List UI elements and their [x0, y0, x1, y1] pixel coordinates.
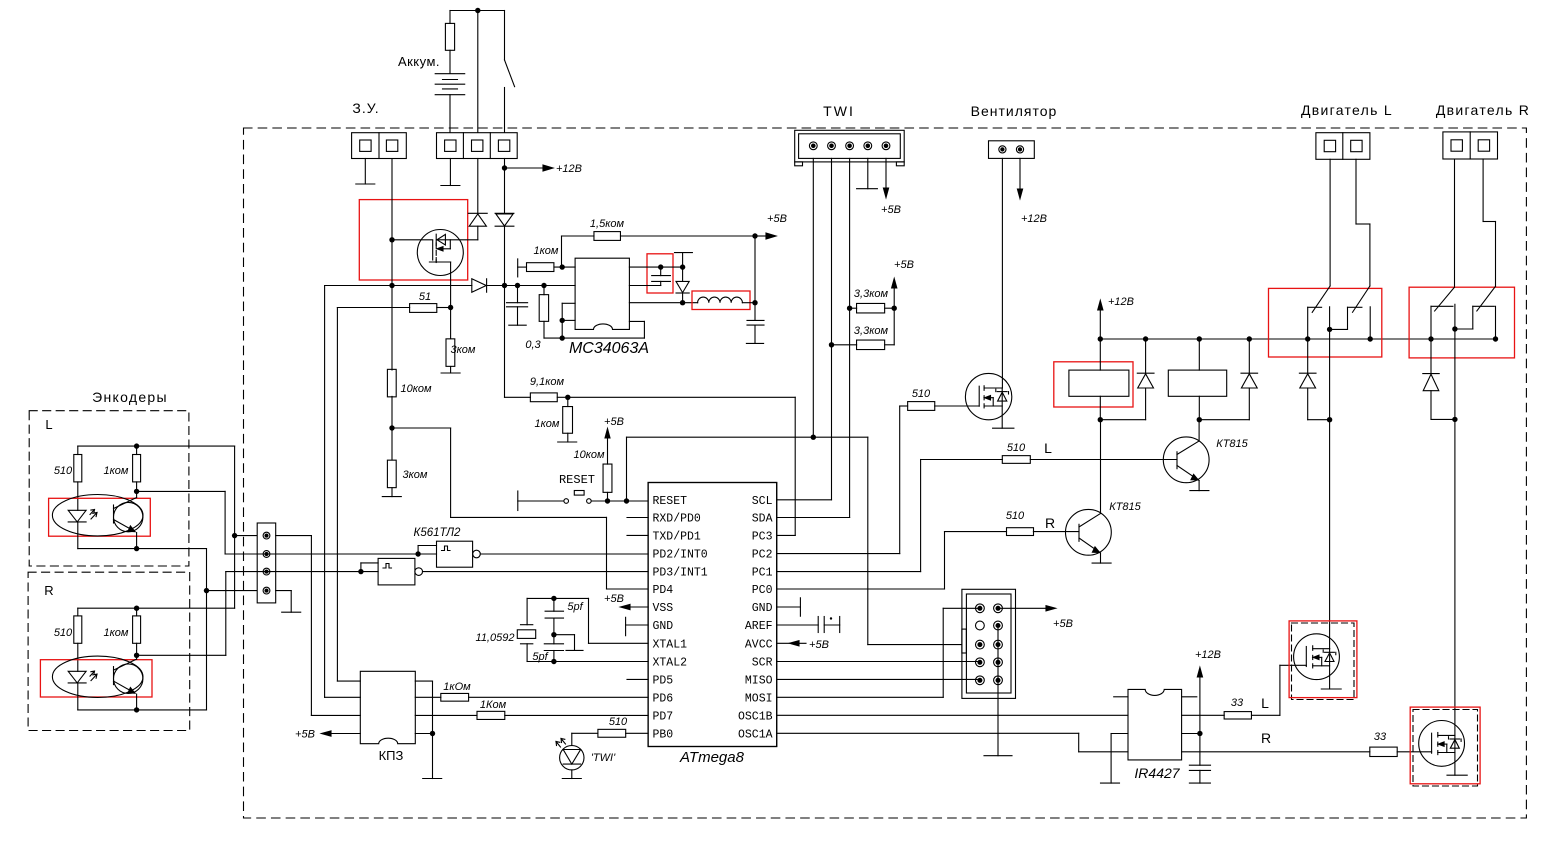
node +5V inductor out [752, 300, 757, 305]
VT5 black dashed box [1292, 623, 1355, 700]
relay contacts R red box [1409, 287, 1514, 358]
body diode VT2 [997, 391, 1007, 393]
node 1k feedback [560, 264, 565, 269]
svg-text:L: L [1044, 440, 1052, 456]
ground VT5 [1321, 688, 1341, 690]
wire gate1 inputs [418, 553, 436, 555]
svg-text:TXD/PD1: TXD/PD1 [653, 530, 701, 543]
capacitor U2 bypass [1189, 764, 1210, 766]
wire rail down to 9,1ком [504, 286, 506, 398]
diode VD7 motor L [1307, 339, 1309, 373]
wire X1 pin1 to ground [364, 159, 366, 185]
node reset pullup [605, 498, 610, 503]
svg-text:1ком: 1ком [534, 245, 559, 257]
svg-text:КТ815: КТ815 [1109, 501, 1141, 513]
wire LED to gnd [571, 770, 573, 779]
wire PB0 to 510 [626, 732, 648, 734]
svg-text:0,3: 0,3 [525, 339, 541, 351]
net +12V arrow [505, 167, 544, 169]
node contact R common [1452, 326, 1457, 331]
wire TWI pin4 gnd [867, 158, 869, 188]
wire fan drain [1001, 158, 1003, 388]
wire switch pin to inductor [629, 302, 697, 304]
relay K1 coil [1099, 339, 1101, 370]
svg-text:ATmega8: ATmega8 [679, 749, 745, 766]
svg-text:PC2: PC2 [752, 549, 773, 562]
svg-text:510: 510 [912, 388, 931, 400]
terminal VD4 top bar [675, 252, 693, 254]
wire motor R pin2 [1482, 159, 1484, 222]
terminal GND left [625, 617, 627, 635]
transistor VT6 N-MOSFET R [1419, 721, 1465, 767]
svg-text:Двигатель R: Двигатель R [1436, 102, 1530, 118]
svg-text:11,0592: 11,0592 [476, 632, 515, 644]
resistor 33 L [1224, 712, 1251, 719]
node +12V tap [502, 165, 507, 170]
pin stub RXD [627, 517, 648, 519]
svg-text:К561ТЛ2: К561ТЛ2 [414, 527, 461, 539]
svg-text:R: R [44, 583, 53, 598]
transistor VT4 KT815 L [1163, 437, 1209, 483]
net +5V arrow AVCC [777, 642, 806, 644]
connector X6 motor R [1443, 132, 1498, 159]
crystal ZQ1 11,0592 [526, 598, 528, 624]
VT1 drain plate [435, 260, 437, 262]
svg-text:З.У.: З.У. [352, 100, 379, 116]
wire encoder L bottom [78, 548, 207, 550]
node U2 +12V [1197, 731, 1202, 736]
wire R common pole [1454, 304, 1456, 735]
fuse F1 [449, 11, 451, 24]
svg-text:1,5ком: 1,5ком [590, 218, 625, 230]
transistor VT3 KT815 R [1066, 509, 1112, 555]
capacitor input filter [507, 302, 528, 304]
gate DD1.1 Schmitt [437, 541, 473, 567]
VT6 red box [1410, 707, 1480, 784]
contact L throw1 [1308, 306, 1322, 308]
svg-text:510: 510 [609, 716, 628, 728]
ground X2 [441, 185, 460, 187]
node gate2 input [358, 569, 363, 574]
svg-text:10ком: 10ком [400, 383, 432, 395]
net +5V arrow КПЗ [329, 733, 360, 735]
svg-text:+12В: +12В [1195, 649, 1221, 661]
capacitor timing red box [647, 254, 673, 293]
ground crystal caps [566, 649, 583, 651]
svg-text:RESET: RESET [653, 495, 688, 508]
wire motor L pin1 [1329, 159, 1331, 286]
diode VD4 catch [682, 267, 684, 281]
contact R throw1 post [1430, 306, 1432, 339]
ground U2 cap [1189, 782, 1210, 784]
wire КПЗ pin3 out [415, 714, 477, 716]
contact R arm1 [1435, 287, 1455, 311]
red highlight box P-MOSFET [359, 200, 467, 280]
node top rail junction [475, 8, 480, 13]
contact L arm1 [1312, 286, 1330, 312]
net fan +12V arrow [1019, 158, 1021, 189]
node 51 junction [448, 305, 453, 310]
resistor 10ком divider [387, 369, 396, 397]
svg-text:RESET: RESET [559, 473, 595, 487]
connector X7 ISP [962, 589, 1016, 698]
connector X4 fan [989, 141, 1035, 159]
resistor 510 fan [908, 402, 935, 411]
wire divider tap to PD4 [392, 427, 451, 429]
node VD8 common [1452, 417, 1457, 422]
wire VT2 source gnd [1001, 388, 1003, 428]
resistor 3ком lower [391, 428, 393, 460]
battery GB1 [435, 73, 465, 75]
terminal GND right [777, 606, 801, 608]
svg-text:+12В: +12В [1021, 213, 1047, 225]
contact L arm2 [1353, 286, 1370, 312]
resistor 1ком to gnd [567, 397, 569, 406]
resistor 510 encL [77, 446, 79, 454]
capacitor output filter [747, 319, 764, 321]
node sense bottom [560, 335, 565, 340]
svg-text:3,3ком: 3,3ком [854, 288, 889, 300]
svg-text:MOSI: MOSI [745, 692, 773, 705]
wire reset net to ISP [867, 437, 869, 644]
node crystal caps mid [551, 632, 556, 637]
svg-text:+12В: +12В [1108, 296, 1134, 308]
node divider tap [389, 425, 394, 430]
net +12V arrow relays [1099, 310, 1101, 339]
wire PC2 to fan gate [777, 553, 900, 555]
wire PC1 to 510 L [777, 571, 921, 573]
node VD7 common [1327, 417, 1332, 422]
wire to PD7 [505, 714, 648, 716]
svg-text:AVCC: AVCC [745, 638, 773, 651]
contact R throw3 [1495, 306, 1497, 339]
photo arrow U3 [90, 510, 97, 520]
IC MC34063A body [575, 258, 629, 329]
phototransistor U4 [113, 667, 115, 685]
contact L throw2 [1348, 306, 1362, 308]
diode VD6 K2 [1248, 339, 1250, 373]
wire TWI pin2 SCL [831, 158, 833, 499]
node catch diode top [680, 264, 685, 269]
node encR collector [136, 643, 138, 655]
svg-text:Аккум.: Аккум. [398, 54, 440, 69]
relay K1 red box [1054, 362, 1133, 407]
node enc supply pin1 [232, 533, 237, 538]
wire ISP MOSI [943, 607, 980, 609]
node L top 1k [134, 443, 139, 448]
node rail cap tap [515, 283, 520, 288]
wire pin to Ct [629, 266, 682, 268]
optocoupler U4 red box [40, 660, 152, 697]
svg-text:510: 510 [1006, 510, 1025, 522]
VT6 black dashed box [1413, 710, 1478, 787]
transistor VT1 P-MOSFET [417, 230, 463, 276]
diode VD1 [468, 212, 487, 214]
optocoupler U3 body [52, 495, 143, 536]
wire pin2 to gate1 [225, 553, 418, 555]
net ISP +5V arrow [998, 607, 1046, 609]
ground TWI [857, 188, 878, 190]
ground VT6 [1447, 774, 1467, 776]
diode VD3 series [472, 279, 486, 292]
wire КПЗ pin4 out [415, 733, 432, 735]
wire encoder L top [78, 445, 235, 447]
encoder R dashed box [28, 572, 190, 730]
wire VT6 source [1454, 735, 1456, 775]
resistor 33 R [1370, 747, 1397, 756]
wire U2 vcc pin [1182, 733, 1200, 735]
ISP pins [976, 604, 985, 613]
capacitor Ct [660, 267, 662, 276]
node rail sense tap [541, 283, 546, 288]
svg-text:GND: GND [653, 620, 674, 633]
svg-text:3ком: 3ком [451, 344, 476, 356]
wire main rail [325, 285, 472, 287]
svg-text:IR4427: IR4427 [1134, 765, 1180, 781]
pin stub PD5 [627, 678, 648, 680]
pin stub U2 right1 [1182, 696, 1197, 698]
node XTAL1 cap [551, 596, 556, 601]
node pin2 rail cross [389, 283, 394, 288]
wire TWI pin1 reset [812, 158, 814, 437]
svg-text:PC1: PC1 [752, 567, 773, 580]
svg-text:510: 510 [54, 465, 73, 477]
wire SCL [777, 499, 832, 501]
wire battery to connector [449, 95, 451, 133]
svg-text:SCR: SCR [752, 657, 773, 670]
wire U2 gnd pin [1111, 733, 1128, 735]
IC U1 ATmega8 body [648, 483, 777, 747]
svg-text:МС34063А: МС34063А [569, 340, 649, 357]
resistor 0,3 sense [543, 286, 545, 295]
svg-text:'TWI': 'TWI' [591, 752, 616, 764]
wire left col A [324, 286, 326, 698]
svg-text:R: R [1261, 730, 1271, 746]
resistor 510 L [1002, 456, 1030, 464]
resistor 1кОм [441, 693, 469, 701]
svg-text:PB0: PB0 [653, 728, 674, 741]
svg-text:XTAL2: XTAL2 [653, 657, 688, 670]
node XTAL2 cap [551, 659, 556, 664]
wire LED R anode [77, 643, 79, 671]
capacitor C 5pf bottom [544, 643, 563, 645]
net +5V arrow pullups [893, 286, 895, 345]
transistor VT2 fan N-MOSFET [965, 373, 1011, 419]
resistor 3ком upper [450, 308, 452, 339]
wire КПЗ pin2 out [415, 696, 441, 698]
wire encR signal [137, 654, 226, 656]
relay K2 coil [1198, 339, 1200, 370]
svg-text:PD2/INT0: PD2/INT0 [653, 549, 708, 562]
net +5V arrow VSS [621, 604, 631, 609]
svg-text:33: 33 [1231, 697, 1244, 709]
pin stub TXD [627, 534, 648, 536]
wire LED L anode [77, 482, 79, 510]
ground U2 [1101, 782, 1120, 784]
svg-text:AREF: AREF [745, 620, 773, 633]
wire motor L pin2 [1355, 159, 1357, 224]
wire below 10k [391, 396, 393, 428]
svg-text:R: R [1045, 515, 1055, 531]
svg-text:PC0: PC0 [752, 584, 773, 597]
pin stub U2 left1 [1114, 696, 1128, 698]
wire MC bottom loop [544, 337, 644, 339]
wire X1 pin2 down [391, 159, 393, 370]
net TWI +5V arrow [885, 158, 887, 188]
phototransistor U3 [113, 505, 115, 523]
svg-text:+5В: +5В [809, 639, 829, 651]
node encL collector [136, 482, 138, 492]
node Ct top [658, 264, 663, 269]
resistor 3,3ком SDA [850, 307, 857, 309]
svg-text:+12В: +12В [556, 163, 582, 175]
svg-text:10ком: 10ком [573, 449, 605, 461]
wire OSC1B to U2 [777, 714, 1128, 716]
wire gate2 out PD3 [423, 571, 649, 573]
node rail diode out [502, 283, 507, 288]
node K1 bottom [1098, 417, 1103, 422]
ground VT3 [1092, 562, 1111, 564]
wire X2 pin1 to ground [449, 159, 451, 186]
svg-text:L: L [45, 417, 52, 432]
LED U3 [68, 510, 86, 522]
wire ISP gnd [997, 626, 999, 681]
main circuit dashed border [244, 128, 1527, 818]
ground VT4 [1190, 490, 1209, 492]
wire pin1 left [235, 535, 258, 537]
wire pin Ct bottom [629, 285, 660, 287]
svg-text:L: L [1261, 695, 1269, 711]
wire MC input cap [517, 286, 519, 303]
gate DD1.2 Schmitt [378, 558, 415, 585]
inductor L1 [698, 297, 743, 303]
ground VT2 [993, 427, 1014, 429]
body diode VT5 [1325, 651, 1335, 653]
node Ipk [560, 318, 565, 323]
resistor 51 [337, 307, 409, 309]
wire caps mid to ground [554, 634, 575, 636]
wire left col B [336, 308, 338, 682]
wire enc supply chain [234, 446, 236, 608]
svg-text:1ком: 1ком [104, 627, 129, 639]
wire SDA [777, 517, 850, 519]
resistor 1ком encL [136, 446, 138, 454]
svg-text:GND: GND [752, 602, 773, 615]
resistor 1Ком [477, 711, 505, 719]
ground 3ком [382, 496, 401, 498]
wire КПЗ pin1 out [415, 680, 432, 682]
svg-text:3,3ком: 3,3ком [854, 325, 889, 337]
wire MC Ipk pin [562, 302, 575, 304]
svg-text:51: 51 [419, 291, 431, 303]
wire VT5 source [1329, 649, 1331, 689]
ground input cap [509, 324, 526, 326]
diode VD5 K1 [1145, 339, 1147, 373]
wire pin1 right [276, 535, 312, 537]
inductor L1 red box [692, 291, 750, 310]
wire enc gnd chain [206, 549, 208, 710]
resistor 510 R [1007, 528, 1034, 536]
svg-text:PD4: PD4 [653, 584, 674, 597]
ground 3ком upper [441, 372, 460, 374]
IC DD2 КПЗ body [360, 671, 415, 743]
connector X2 main 3-pin [437, 133, 518, 159]
relay contacts L red box [1269, 288, 1382, 357]
ground X8 [282, 611, 301, 613]
connector X3 TWI [795, 130, 905, 162]
resistor 3,3ком SCL [832, 344, 857, 346]
resistor 510 encR [77, 608, 79, 616]
wire reset to ISP net [626, 437, 628, 501]
connector X8 encoders [257, 523, 276, 603]
node КПЗ gnd tie [430, 731, 435, 736]
contact R arm2 [1477, 286, 1496, 311]
svg-text:+5В: +5В [604, 593, 624, 605]
svg-text:MISO: MISO [745, 674, 773, 687]
resistor 10ком reset [603, 464, 612, 492]
svg-text:SCL: SCL [752, 495, 773, 508]
wire relay rail [1100, 338, 1495, 340]
capacitor AREF [777, 624, 819, 626]
resistor 510 LED [598, 729, 626, 737]
node gate1 input [415, 551, 420, 556]
encoder L dashed box [29, 411, 189, 566]
node contact L common [1327, 327, 1332, 332]
contact L throw3 [1369, 307, 1371, 339]
node K2 bottom [1197, 417, 1202, 422]
contact R throw1 [1431, 305, 1453, 307]
node reset TWI pin1 [811, 435, 816, 440]
IC U1 pin labels [653, 495, 773, 741]
wire XTAL1 net [589, 642, 649, 644]
svg-text:Вентилятор: Вентилятор [971, 103, 1058, 119]
svg-text:КПЗ: КПЗ [379, 748, 404, 763]
wire motor R pin1 [1454, 159, 1456, 287]
body diode VT6 [1450, 738, 1460, 740]
optocoupler U3 red box [49, 498, 151, 536]
svg-text:Энкодеры: Энкодеры [92, 389, 168, 405]
wire OSC1A to U2 [777, 732, 1079, 734]
net +5V arrow reset pullup [605, 429, 610, 438]
transistor VT5 N-MOSFET L [1294, 634, 1340, 680]
wire +5V vertical [754, 236, 756, 320]
wire X2 pin3 down [504, 159, 506, 214]
node 9,1k junction [565, 395, 570, 400]
wire ISP SCR [777, 661, 980, 663]
svg-text:SDA: SDA [752, 513, 773, 526]
diode VD2 [495, 212, 514, 214]
svg-text:PD3/INT1: PD3/INT1 [653, 567, 708, 580]
svg-text:PD7: PD7 [653, 710, 674, 723]
node SDA pullup [847, 306, 852, 311]
svg-text:PC3: PC3 [752, 530, 773, 543]
svg-text:+5В: +5В [881, 204, 901, 216]
connector X5 motor L [1316, 133, 1370, 160]
VT5 red box [1289, 621, 1357, 698]
wire pin4 right gnd [276, 590, 292, 592]
ground 1ком [558, 441, 577, 443]
diode VD8 motor R [1430, 339, 1432, 374]
wire top rail battery [450, 10, 505, 12]
svg-text:КТ815: КТ815 [1216, 438, 1248, 450]
node gate net [389, 237, 394, 242]
svg-text:510: 510 [1007, 442, 1026, 454]
node R top 1k [134, 606, 139, 611]
wire charger pin2 up [477, 11, 479, 133]
wire TWI pin3 SDA [849, 158, 851, 517]
resistor 1ком input [517, 259, 519, 277]
ground КПЗ [423, 778, 442, 780]
